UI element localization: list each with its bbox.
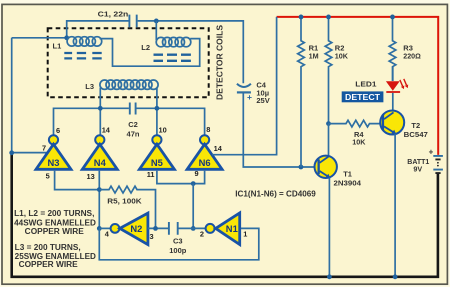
wire pin7 N3 — [12, 152, 48, 154]
svg-text:11: 11 — [147, 170, 155, 179]
svg-text:N4: N4 — [94, 157, 107, 168]
svg-text:10: 10 — [159, 125, 167, 134]
wire C3 to N1 bubble — [178, 227, 206, 229]
capacitor C4 — [237, 81, 270, 106]
svg-text:N2: N2 — [130, 223, 142, 234]
wire N2 input to C3 — [148, 227, 169, 229]
wire C4 bottom to T1 base — [243, 94, 317, 168]
node R5/N2 input junction — [153, 226, 158, 231]
ground rail (black) — [12, 153, 438, 276]
node rail R2 — [326, 15, 331, 20]
red V+ rail — [277, 17, 439, 155]
svg-text:10K: 10K — [335, 52, 349, 61]
svg-text:100p: 100p — [169, 246, 187, 255]
svg-text:N1: N1 — [226, 223, 238, 234]
pin 8 — [206, 125, 210, 134]
pin 13 — [87, 172, 95, 181]
svg-text:IC1(N1-N6) = CD4069: IC1(N1-N6) = CD4069 — [235, 189, 316, 198]
resistor R5 — [99, 186, 155, 228]
svg-text:+: + — [429, 147, 434, 156]
svg-text:7: 7 — [42, 144, 46, 153]
svg-text:1M: 1M — [309, 52, 319, 61]
pin 2 — [200, 230, 204, 239]
resistor R3 — [389, 17, 421, 81]
node C1-L2 junction — [154, 19, 159, 41]
svg-text:5: 5 — [46, 171, 50, 180]
battery BATT1 — [407, 147, 443, 173]
svg-text:LED1: LED1 — [355, 80, 376, 89]
pin 14 N4 — [102, 125, 111, 134]
svg-text:COPPER WIRE: COPPER WIRE — [25, 227, 84, 236]
svg-text:14: 14 — [214, 144, 223, 153]
svg-text:1: 1 — [243, 230, 247, 239]
inverter N5 — [139, 135, 174, 169]
inverter N2 — [99, 213, 148, 245]
wire tie down to N1 output — [192, 184, 194, 229]
pin 4 — [105, 230, 110, 239]
inverter N1 — [206, 213, 240, 245]
transistor T1 — [315, 156, 362, 188]
svg-text:2N3904: 2N3904 — [334, 178, 362, 187]
svg-text:L1, L2 = 200 TURNS,: L1, L2 = 200 TURNS, — [14, 209, 94, 218]
node N1 output junction — [191, 226, 196, 231]
wire N3 pin5 to junction — [55, 171, 100, 190]
wire L1 right to L2 right (U link) — [100, 39, 200, 67]
wire VDD drop to pin14 N6 — [212, 17, 277, 155]
svg-text:3: 3 — [150, 232, 154, 241]
L1 core bars — [64, 53, 101, 58]
svg-text:L2: L2 — [141, 43, 150, 52]
wire N4 pin13 down — [98, 171, 100, 229]
wire T2 emitter to ground — [394, 134, 396, 277]
op-amp/inverter N3 — [36, 135, 71, 169]
svg-text:BC547: BC547 — [404, 130, 428, 139]
resistor R1 — [298, 17, 319, 167]
svg-text:L1: L1 — [53, 41, 62, 50]
wire L3 terminals — [100, 88, 157, 109]
DETECT label box — [342, 91, 384, 102]
wire LED cathode to T2 collector — [392, 93, 394, 111]
note text L3 — [15, 243, 97, 269]
inductor L2 — [156, 37, 191, 46]
pin 9 — [195, 169, 199, 178]
svg-text:N3: N3 — [48, 157, 60, 168]
resistor R4 — [329, 120, 382, 146]
inverter N6 — [187, 135, 222, 169]
pin 1 — [243, 230, 247, 239]
L2 core bars — [154, 55, 191, 61]
svg-text:8: 8 — [206, 125, 210, 134]
inductor L3 — [100, 80, 158, 89]
node pin7/ground junction — [9, 150, 14, 155]
pin 6 — [56, 126, 60, 135]
node R2/R4 junction — [326, 121, 331, 126]
node L3 right on bus — [155, 106, 160, 111]
node L1 left junction — [64, 35, 69, 40]
svg-text:C2: C2 — [128, 120, 138, 129]
svg-text:13: 13 — [87, 172, 95, 181]
capacitor C3 — [169, 222, 187, 255]
svg-text:DETECTOR COILS: DETECTOR COILS — [216, 24, 225, 100]
node T2 emitter on rail — [393, 274, 398, 279]
svg-text:N5: N5 — [151, 157, 163, 168]
svg-text:DETECT: DETECT — [345, 93, 380, 102]
svg-text:2: 2 — [200, 230, 204, 239]
note text L1 L2 — [14, 209, 96, 236]
resistor R2 — [325, 17, 349, 124]
node N2 output junction — [97, 226, 102, 231]
wire T1 collector — [328, 124, 330, 157]
svg-text:14: 14 — [102, 125, 111, 134]
node rail R3 — [390, 15, 395, 20]
label IC1 — [235, 189, 316, 198]
capacitor C1 — [98, 9, 137, 27]
capacitor C2 — [127, 103, 140, 139]
bus wire to gate bubbles — [54, 108, 205, 135]
dashed detector-coils box — [48, 28, 209, 97]
pin 3 — [150, 232, 154, 241]
pin 14 N6 — [214, 144, 223, 153]
svg-text:47n: 47n — [127, 129, 140, 138]
svg-text:COPPER WIRE: COPPER WIRE — [19, 260, 78, 269]
svg-text:25V: 25V — [256, 96, 269, 105]
transistor T2 — [380, 111, 428, 139]
pin 5 — [46, 171, 50, 180]
svg-text:C1, 22n: C1, 22n — [98, 9, 129, 18]
wire T1 emitter to ground — [328, 178, 330, 277]
node L3 left on bus — [98, 106, 103, 111]
pin 10 — [159, 125, 167, 134]
svg-text:T1: T1 — [343, 170, 352, 179]
label DETECTOR COILS — [216, 24, 225, 100]
node R1 bottom junction — [299, 165, 304, 170]
node rail R1 — [299, 15, 304, 20]
svg-text:C3: C3 — [173, 237, 183, 246]
svg-text:L3 = 200 TURNS,: L3 = 200 TURNS, — [15, 243, 81, 252]
node T1 emitter on rail — [327, 274, 332, 279]
inductor L1 — [67, 37, 102, 46]
svg-text:N6: N6 — [199, 157, 211, 168]
node R5 left junction — [97, 187, 102, 192]
LED1 — [355, 67, 408, 92]
wire N5/N6 input tie — [157, 171, 205, 184]
svg-text:10K: 10K — [352, 138, 366, 147]
wire C1 right branch to C4 — [138, 21, 244, 83]
svg-text:R5, 100K: R5, 100K — [107, 197, 142, 206]
inverter N4 — [82, 135, 117, 169]
svg-text:6: 6 — [56, 126, 60, 135]
svg-text:9V: 9V — [413, 164, 422, 173]
svg-text:L3: L3 — [85, 82, 94, 91]
wire C1 left branch — [67, 21, 129, 38]
pin 11 — [147, 170, 155, 179]
svg-text:220Ω: 220Ω — [403, 52, 421, 61]
svg-text:+: + — [247, 92, 252, 102]
wire left rail (top) — [12, 38, 67, 154]
wire feedback loop N2 out to N1 in — [99, 228, 258, 259]
svg-text:9: 9 — [195, 169, 199, 178]
pin 7 — [42, 144, 46, 153]
node tie junction — [191, 181, 196, 186]
